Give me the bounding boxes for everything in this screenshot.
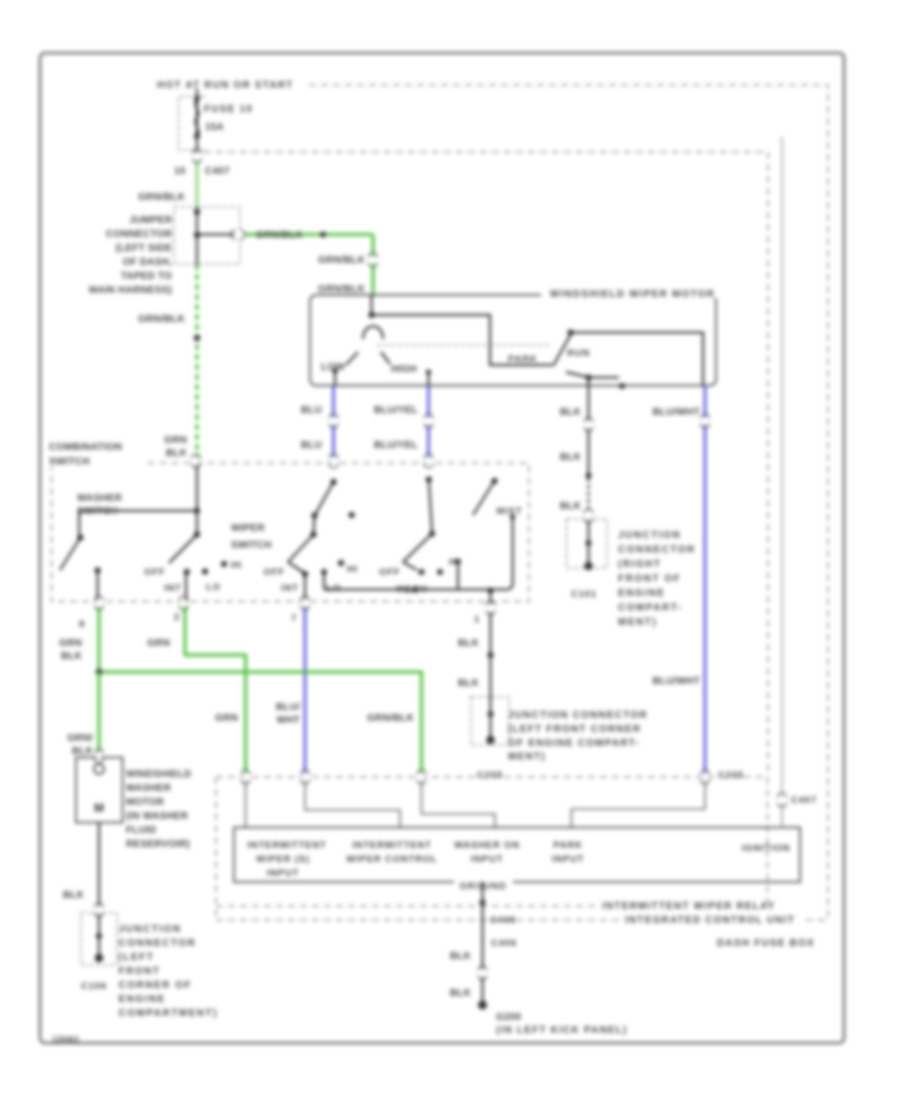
svg-text:WHT: WHT: [277, 715, 300, 726]
svg-text:BLK: BLK: [560, 407, 582, 418]
svg-text:OF ENGINE COMPART-: OF ENGINE COMPART-: [508, 738, 640, 749]
svg-text:LOW: LOW: [321, 362, 345, 373]
svg-text:SWITCH: SWITCH: [49, 457, 90, 468]
svg-text:HI: HI: [231, 560, 242, 571]
svg-text:COMBINATION: COMBINATION: [49, 442, 122, 453]
svg-text:BLU/WHT: BLU/WHT: [653, 676, 701, 687]
svg-text:G200: G200: [496, 1012, 522, 1023]
svg-text:GRN: GRN: [215, 713, 238, 724]
svg-text:(LEFT SIDE: (LEFT SIDE: [116, 243, 173, 254]
svg-text:INPUT: INPUT: [552, 854, 585, 865]
svg-text:INPUT: INPUT: [471, 854, 504, 865]
svg-text:BLU/YEL: BLU/YEL: [374, 440, 418, 451]
svg-text:C205: C205: [718, 770, 744, 781]
svg-text:C406: C406: [491, 938, 517, 949]
svg-text:BLK: BLK: [166, 448, 188, 459]
svg-text:(IN LEFT KICK PANEL): (IN LEFT KICK PANEL): [496, 1025, 628, 1036]
svg-text:FLUID: FLUID: [126, 825, 156, 836]
svg-text:PARK: PARK: [553, 840, 582, 851]
svg-text:MENT): MENT): [618, 617, 657, 628]
svg-text:WASHER: WASHER: [126, 783, 172, 794]
svg-text:BLK: BLK: [63, 890, 85, 901]
svg-text:INT: INT: [281, 583, 299, 594]
svg-text:INTEGRATED CONTROL UNIT: INTEGRATED CONTROL UNIT: [625, 915, 795, 926]
svg-text:CONNECTOR: CONNECTOR: [106, 229, 173, 240]
svg-text:15A: 15A: [205, 122, 224, 133]
svg-text:IGNITION: IGNITION: [742, 843, 791, 854]
svg-text:GRN/BLK: GRN/BLK: [367, 713, 415, 724]
svg-text:ENGINE: ENGINE: [119, 994, 166, 1005]
svg-text:BLK: BLK: [61, 651, 83, 662]
svg-text:WIPER: WIPER: [231, 523, 265, 534]
svg-text:C106: C106: [81, 981, 107, 992]
svg-text:HI: HI: [449, 557, 460, 568]
svg-text:C407: C407: [205, 166, 230, 177]
svg-text:BLK: BLK: [458, 678, 480, 689]
svg-text:WIPER (S): WIPER (S): [256, 854, 310, 865]
svg-text:OFF: OFF: [264, 567, 285, 578]
svg-text:WASH: WASH: [396, 584, 428, 595]
svg-text:WASHER ON: WASHER ON: [454, 840, 520, 851]
svg-text:BLK: BLK: [450, 951, 472, 962]
svg-text:GRN/BLK: GRN/BLK: [318, 284, 366, 295]
svg-text:10: 10: [174, 166, 186, 177]
svg-text:CONNECTOR: CONNECTOR: [618, 545, 696, 556]
svg-text:2: 2: [174, 612, 180, 623]
svg-text:OF DASH,: OF DASH,: [123, 257, 172, 268]
svg-text:JUNCTION: JUNCTION: [119, 924, 182, 935]
svg-text:MOTOR: MOTOR: [126, 797, 165, 808]
svg-text:HIGH: HIGH: [391, 364, 417, 375]
svg-text:C205: C205: [477, 770, 503, 781]
svg-text:WINDSHIELD: WINDSHIELD: [126, 769, 191, 780]
svg-text:BLK: BLK: [72, 746, 94, 757]
svg-text:DASH FUSE BOX: DASH FUSE BOX: [717, 938, 815, 949]
svg-text:RESERVOIR): RESERVOIR): [126, 839, 190, 850]
svg-text:GRN/BLK: GRN/BLK: [138, 314, 186, 325]
svg-text:INPUT: INPUT: [267, 868, 300, 879]
svg-text:OFF: OFF: [379, 567, 400, 578]
svg-text:WIPER CONTROL: WIPER CONTROL: [346, 854, 437, 865]
svg-text:M: M: [94, 801, 104, 815]
svg-text:PARK: PARK: [508, 354, 537, 365]
svg-text:CONNECTOR: CONNECTOR: [119, 938, 197, 949]
svg-text:(LEFT FRONT CORNER: (LEFT FRONT CORNER: [508, 724, 641, 735]
svg-text:8: 8: [79, 619, 85, 630]
svg-text:LO: LO: [206, 582, 221, 593]
svg-text:HOT AT RUN OR START: HOT AT RUN OR START: [157, 80, 294, 91]
svg-text:INT: INT: [164, 583, 182, 594]
svg-text:(IN WASHER: (IN WASHER: [126, 811, 189, 822]
svg-text:7: 7: [291, 613, 297, 624]
svg-text:GRN/BLK: GRN/BLK: [318, 255, 366, 266]
svg-text:BLU/WHT: BLU/WHT: [653, 407, 701, 418]
svg-text:FRONT: FRONT: [119, 966, 161, 977]
svg-text:RUN: RUN: [567, 348, 590, 359]
svg-text:INTERMITTENT: INTERMITTENT: [352, 840, 431, 851]
svg-text:JUNCTION CONNECTOR: JUNCTION CONNECTOR: [508, 710, 648, 721]
svg-text:GRN/BLK: GRN/BLK: [256, 230, 304, 241]
svg-text:WINDSHIELD WIPER MOTOR: WINDSHIELD WIPER MOTOR: [550, 289, 715, 300]
svg-text:COMPARTMENT): COMPARTMENT): [119, 1008, 218, 1019]
svg-text:OFF: OFF: [144, 567, 165, 578]
svg-text:C408: C408: [490, 915, 516, 926]
svg-text:GRN: GRN: [164, 435, 187, 446]
svg-text:GRN/: GRN/: [67, 733, 93, 744]
svg-text:BLU/YEL: BLU/YEL: [374, 405, 418, 416]
svg-text:(RIGHT: (RIGHT: [618, 559, 661, 570]
svg-text:SWITCH: SWITCH: [231, 540, 272, 551]
svg-text:GRN/BLK: GRN/BLK: [138, 192, 186, 203]
svg-text:FUSE 10: FUSE 10: [204, 104, 253, 115]
svg-text:COMPART-: COMPART-: [618, 603, 683, 614]
svg-text:C407: C407: [791, 795, 817, 806]
svg-text:WASHER: WASHER: [77, 493, 123, 504]
svg-text:BLK: BLK: [458, 638, 480, 649]
svg-text:(LEFT: (LEFT: [119, 952, 155, 963]
svg-text:BLK: BLK: [450, 988, 472, 999]
svg-text:MENT): MENT): [508, 752, 546, 763]
svg-text:GRN: GRN: [147, 638, 170, 649]
svg-text:BLU: BLU: [301, 440, 322, 451]
svg-text:HI: HI: [347, 564, 358, 575]
svg-text:INTERMITTENT WIPER RELAY: INTERMITTENT WIPER RELAY: [602, 901, 775, 912]
svg-text:FRONT OF: FRONT OF: [618, 574, 681, 585]
svg-text:JUNCTION: JUNCTION: [618, 530, 681, 541]
svg-text:MAIN HARNESS): MAIN HARNESS): [89, 285, 172, 296]
svg-text:BLK: BLK: [560, 501, 582, 512]
svg-text:BLU: BLU: [301, 405, 322, 416]
svg-text:1: 1: [474, 614, 480, 625]
svg-text:129463: 129463: [52, 1035, 79, 1044]
svg-text:GRN: GRN: [59, 638, 82, 649]
svg-text:C101: C101: [571, 589, 597, 600]
svg-text:BLK: BLK: [560, 452, 582, 463]
svg-text:TAPED TO: TAPED TO: [121, 271, 172, 282]
svg-text:ENGINE: ENGINE: [618, 588, 665, 599]
svg-text:INTERMITTENT: INTERMITTENT: [247, 840, 326, 851]
svg-text:CORNER OF: CORNER OF: [119, 980, 193, 991]
svg-text:SWITCH: SWITCH: [77, 506, 118, 517]
svg-text:JUMPER: JUMPER: [129, 215, 172, 226]
svg-text:MIST: MIST: [497, 506, 523, 517]
svg-text:BLU/: BLU/: [276, 702, 300, 713]
